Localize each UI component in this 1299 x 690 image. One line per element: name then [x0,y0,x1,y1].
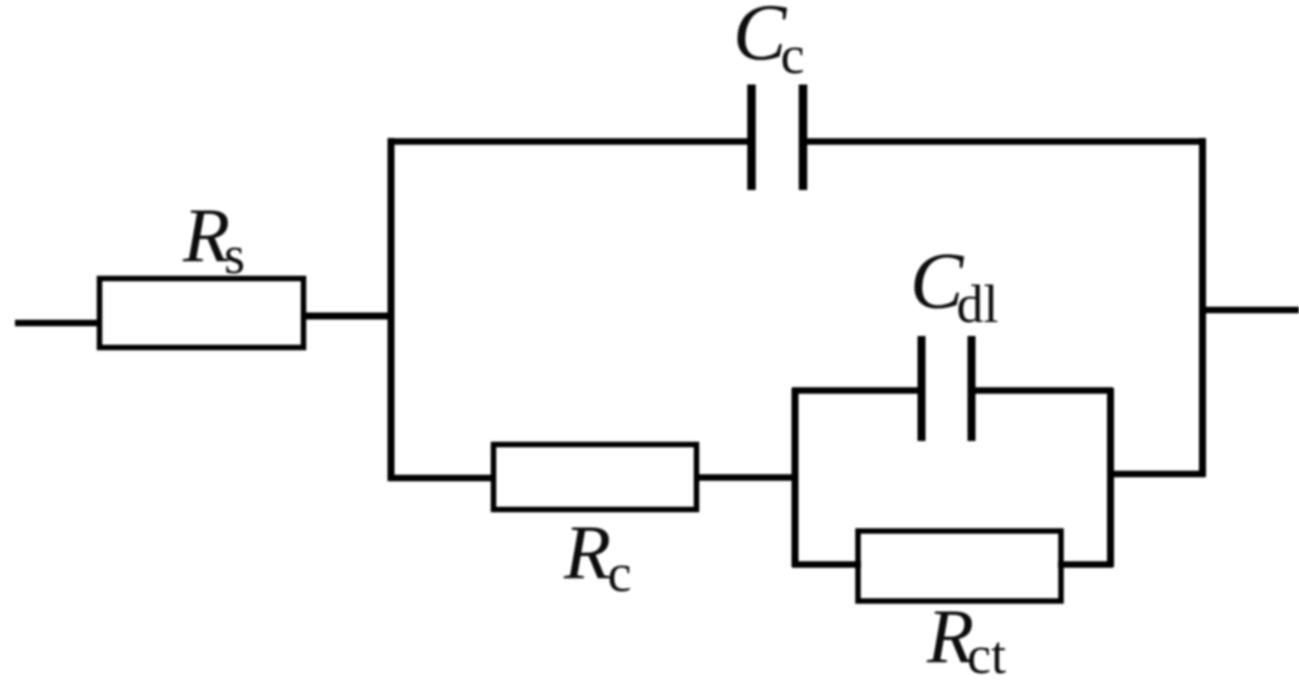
wire inner bottom right of Rct [1058,561,1113,568]
wire output right [1200,307,1299,314]
wire input left [15,320,100,327]
node C vertical (inner left) [792,388,799,567]
node A vertical (left branch junction) [388,138,395,481]
wire inner bottom left of Rct [792,561,861,568]
svg-text:R: R [563,509,611,595]
wire bottom branch from node A [388,475,496,482]
svg-text:R: R [182,192,230,278]
resistor R1 (Rs) box [100,279,304,348]
wire top branch right of Cc [807,138,1206,145]
wire inner top left of Cdl [792,387,918,394]
resistor R3 (Rct) box [858,531,1061,601]
wire node D to node B [1108,471,1206,478]
svg-text:ct: ct [967,625,1006,685]
svg-text:c: c [781,25,805,85]
resistor R2 (Rc) box [494,445,697,510]
capacitor C2 (Cdl) right plate [968,336,976,441]
capacitor C1 (Cc) right plate [799,85,808,191]
svg-text:c: c [608,543,632,603]
capacitor C1 (Cc) left plate [747,85,756,191]
svg-text:s: s [224,225,245,285]
node B vertical (outer right) [1199,138,1206,477]
capacitor C2 (Cdl) left plate [918,336,926,441]
wire Rs to node A [303,313,394,320]
node D vertical (inner right) [1107,388,1114,567]
wire top branch left of Cc [388,138,748,145]
wire Rc to inner parallel node C [694,474,797,481]
svg-text:dl: dl [957,274,999,334]
wire inner top right of Cdl [976,387,1114,394]
